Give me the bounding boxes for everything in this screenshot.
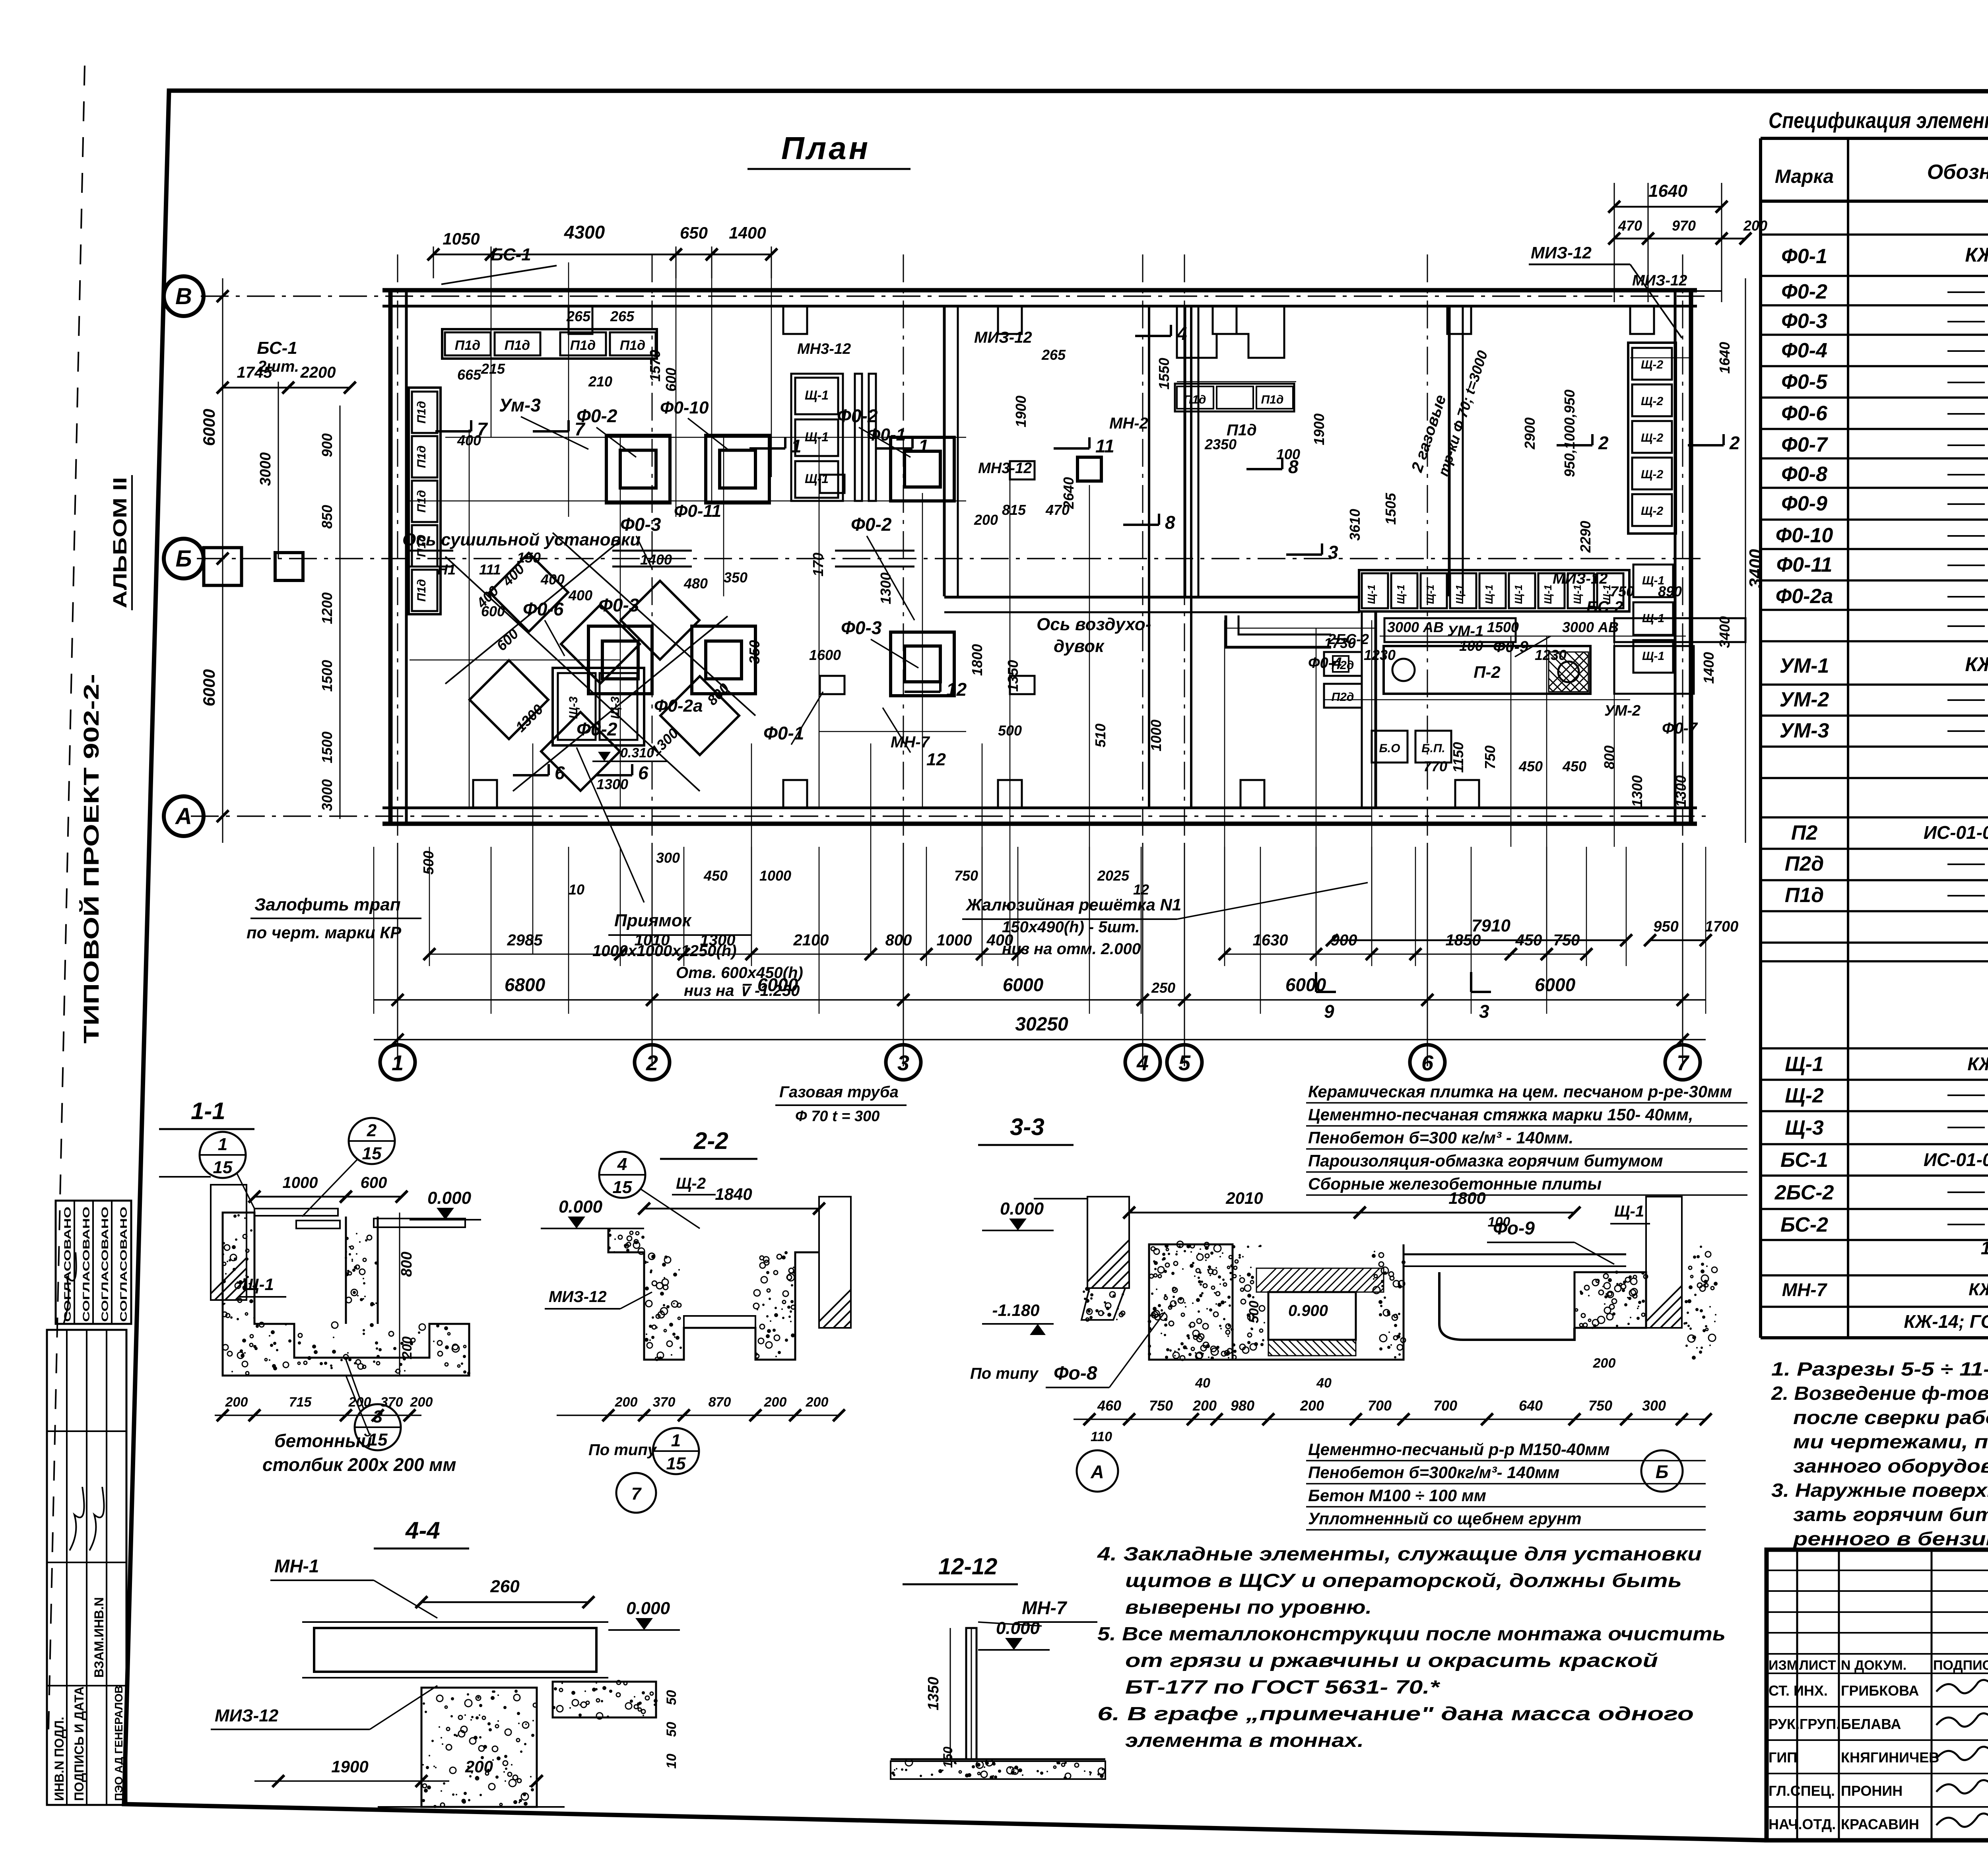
extra projection verticals below plan (429, 847, 430, 966)
svg-text:Ф0-2: Ф0-2 (851, 514, 892, 535)
svg-text:КЖ-25: КЖ-25 (1965, 653, 1988, 675)
svg-text:15: 15 (362, 1144, 382, 1163)
svg-text:6: 6 (555, 763, 565, 783)
interior walls (943, 306, 946, 596)
svg-text:750: 750 (1610, 583, 1634, 600)
svg-text:970: 970 (1672, 217, 1696, 234)
svg-text:П1д: П1д (415, 401, 428, 424)
svg-text:1400: 1400 (1701, 652, 1717, 684)
svg-text:6000: 6000 (1535, 974, 1576, 995)
svg-text:ПОДПИСЬ И ДАТА: ПОДПИСЬ И ДАТА (72, 1686, 86, 1801)
svg-text:Фо-8: Фо-8 (1054, 1363, 1097, 1384)
svg-text:Жалюзийная решётка N1: Жалюзийная решётка N1 (965, 895, 1181, 914)
dimension chain below plan (374, 999, 1706, 1001)
svg-text:2290: 2290 (1577, 521, 1594, 553)
svg-text:1550: 1550 (1156, 358, 1172, 390)
svg-text:30250: 30250 (1015, 1014, 1068, 1035)
svg-text:Б.О: Б.О (1379, 742, 1400, 755)
pit Щ-3 boxes (553, 668, 644, 745)
svg-text:400: 400 (540, 571, 565, 588)
svg-text:СТ. ИНХ.: СТ. ИНХ. (1769, 1682, 1828, 1699)
svg-text:7: 7 (575, 419, 586, 439)
svg-text:480: 480 (683, 575, 708, 592)
svg-text:200: 200 (465, 1757, 493, 1776)
svg-text:300: 300 (1642, 1397, 1666, 1414)
svg-text:Ф0-2а: Ф0-2а (1776, 585, 1833, 608)
svg-text:12-12: 12-12 (938, 1554, 997, 1580)
pilasters on bottom wall (473, 780, 497, 808)
svg-text:170: 170 (810, 553, 826, 576)
svg-text:1400: 1400 (640, 551, 672, 568)
svg-text:РУК.ГРУП.: РУК.ГРУП. (1769, 1716, 1840, 1732)
svg-text:450: 450 (1562, 758, 1586, 774)
svg-text:Спецификация элементов к марки: Спецификация элементов к маркировочным с… (1769, 108, 1988, 133)
svg-text:770: 770 (1423, 758, 1447, 774)
Щ-1 column right (1633, 565, 1673, 597)
svg-text:Ф0-3: Ф0-3 (1781, 310, 1827, 333)
svg-text:370: 370 (381, 1395, 403, 1410)
svg-text:6000: 6000 (1003, 974, 1044, 995)
svg-text:1840: 1840 (715, 1185, 752, 1203)
svg-text:Бетон М100 ÷ 100 мм: Бетон М100 ÷ 100 мм (1308, 1486, 1486, 1505)
svg-text:265: 265 (610, 308, 635, 324)
svg-text:265: 265 (1041, 347, 1066, 363)
svg-text:ИНВ.N ПОДЛ.: ИНВ.N ПОДЛ. (52, 1717, 66, 1801)
svg-text:200: 200 (1743, 217, 1767, 234)
svg-text:Щ-1: Щ-1 (1454, 585, 1466, 604)
svg-text:УМ-1: УМ-1 (1447, 623, 1483, 640)
svg-text:12: 12 (926, 750, 946, 769)
svg-text:7910: 7910 (1472, 916, 1510, 935)
svg-text:500: 500 (998, 722, 1022, 739)
svg-text:640: 640 (1519, 1397, 1543, 1414)
svg-text:ренного в бензине.: ренного в бензине. (1792, 1529, 1988, 1550)
svg-text:2. Возведение ф-тов под оборуд: 2. Возведение ф-тов под оборудование раз… (1771, 1383, 1988, 1404)
bottom right dims 7910 (1332, 939, 1626, 941)
svg-text:700: 700 (1368, 1397, 1392, 1414)
section 1-1 channel body (223, 1213, 469, 1376)
svg-text:Щ-1: Щ-1 (1642, 650, 1664, 663)
svg-text:В: В (175, 283, 192, 309)
svg-text:низ на отм. 2.000: низ на отм. 2.000 (1002, 940, 1141, 958)
svg-text:Н1: Н1 (437, 561, 456, 578)
svg-text:Ф0-2: Ф0-2 (577, 719, 617, 739)
svg-text:занного оборудования.: занного оборудования. (1793, 1456, 1988, 1477)
svg-text:1000х1000х1250(h): 1000х1000х1250(h) (592, 942, 737, 960)
svg-text:СОГЛАСОВАНО: СОГЛАСОВАНО (100, 1207, 111, 1322)
svg-text:950: 950 (1653, 918, 1678, 935)
left dimension chains (222, 278, 223, 843)
svg-text:Марка: Марка (1775, 166, 1834, 187)
svg-text:800: 800 (885, 931, 912, 949)
svg-text:БЕЛАВА: БЕЛАВА (1841, 1716, 1901, 1732)
svg-text:Б: Б (175, 546, 192, 572)
svg-text:4: 4 (1136, 1051, 1149, 1075)
svg-text:15: 15 (666, 1454, 686, 1473)
svg-text:2шт.: 2шт. (257, 358, 299, 375)
svg-text:Отв. 600х450(h): Отв. 600х450(h) (676, 964, 803, 982)
left paper edge dashed line (49, 66, 85, 1729)
svg-text:4300: 4300 (564, 222, 605, 243)
svg-text:Щ-1: Щ-1 (1512, 585, 1524, 604)
svg-text:100: 100 (1276, 446, 1300, 462)
svg-text:5. Все металлоконструкции пос: 5. Все металлоконструкции после монтажа … (1097, 1624, 1726, 1645)
svg-text:Щ-1: Щ-1 (805, 472, 829, 486)
intermediate dims row under plan (429, 954, 1018, 955)
svg-text:40: 40 (1316, 1376, 1332, 1391)
svg-text:6. В графе „примечание" дана: 6. В графе „примечание" дана масса одног… (1097, 1704, 1694, 1725)
svg-text:1: 1 (392, 1051, 404, 1075)
Б.О / Б.П boxes (1372, 731, 1408, 763)
dimensions above plan (433, 254, 491, 256)
svg-text:ВЗАМ.ИНВ.N: ВЗАМ.ИНВ.N (92, 1597, 106, 1678)
svg-text:7: 7 (631, 1484, 642, 1504)
svg-text:ИС-01-04, вып.2: ИС-01-04, вып.2 (1924, 1149, 1988, 1170)
svg-text:Щ-2: Щ-2 (1641, 395, 1664, 408)
svg-text:Щ-2: Щ-2 (676, 1175, 706, 1192)
svg-text:КЖ-16: КЖ-16 (1965, 244, 1988, 266)
svg-text:15: 15 (213, 1158, 233, 1177)
svg-text:1000: 1000 (937, 931, 972, 949)
svg-text:1-1: 1-1 (191, 1098, 225, 1124)
svg-text:дувок: дувок (1054, 636, 1105, 656)
svg-text:3000: 3000 (257, 452, 274, 486)
svg-text:БС-1: БС-1 (257, 338, 297, 358)
svg-text:1150: 1150 (1450, 742, 1466, 772)
svg-text:800: 800 (1601, 745, 1617, 769)
svg-text:Уплотненный со щебнем грунт: Уплотненный со щебнем грунт (1308, 1509, 1582, 1528)
svg-text:Ф0-11: Ф0-11 (1776, 553, 1833, 576)
svg-text:2985: 2985 (507, 931, 543, 949)
svg-text:8: 8 (1165, 512, 1175, 533)
svg-text:Ум-3: Ум-3 (499, 395, 541, 415)
svg-text:200: 200 (348, 1395, 371, 1410)
svg-text:1350: 1350 (1005, 660, 1021, 692)
svg-text:3-3: 3-3 (1010, 1114, 1044, 1140)
П-2 plate long bar (1384, 646, 1590, 694)
svg-text:6800: 6800 (505, 974, 546, 995)
svg-text:2100: 2100 (793, 931, 829, 949)
svg-text:1700: 1700 (1705, 918, 1739, 935)
svg-text:4: 4 (1176, 323, 1187, 344)
svg-text:200: 200 (400, 1337, 415, 1360)
svg-text:Щ-1: Щ-1 (1614, 1203, 1644, 1220)
svg-text:Обозначение: Обозначение (1927, 161, 1988, 184)
svg-text:АЛЬБОМ II: АЛЬБОМ II (110, 477, 131, 608)
projection thin lines vertical (491, 262, 492, 437)
svg-text:1230: 1230 (1364, 647, 1396, 663)
axis circles lettered (164, 276, 204, 316)
svg-text:200: 200 (410, 1395, 433, 1410)
section 2-2 channel (608, 1228, 819, 1360)
svg-text:215: 215 (481, 361, 505, 377)
section 4-4 column (421, 1688, 537, 1807)
svg-text:900: 900 (319, 433, 335, 457)
svg-text:после сверки рабочих чертежей: после сверки рабочих чертежей фундаменто… (1793, 1407, 1988, 1428)
svg-text:Ф0-2: Ф0-2 (1781, 280, 1827, 303)
svg-text:0.000: 0.000 (427, 1188, 472, 1208)
svg-text:Щ-2: Щ-2 (1641, 505, 1664, 518)
svg-text:950,1000,950: 950,1000,950 (1561, 390, 1578, 477)
svg-text:2350: 2350 (1204, 436, 1237, 452)
plan axis lines vertical (397, 254, 398, 1069)
svg-text:200: 200 (1192, 1397, 1217, 1414)
svg-text:Ф0-2а: Ф0-2а (654, 696, 703, 716)
pilasters on top wall (569, 306, 592, 334)
svg-text:КЖ-28: КЖ-28 (1969, 1280, 1988, 1299)
svg-text:1600: 1600 (809, 647, 841, 663)
section 3-3 dims (1129, 1212, 1360, 1214)
svg-text:2: 2 (646, 1051, 658, 1075)
svg-text:щитов в ЩСУ и операторской, до: щитов в ЩСУ и операторской, должны быть (1125, 1570, 1682, 1591)
svg-text:4: 4 (617, 1155, 627, 1174)
svg-text:890: 890 (1658, 583, 1682, 600)
svg-text:Ф0-11: Ф0-11 (674, 501, 721, 521)
svg-text:650: 650 (680, 223, 708, 242)
svg-text:470: 470 (1618, 217, 1642, 234)
svg-text:100: 100 (1459, 638, 1483, 654)
svg-text:200: 200 (1593, 1356, 1616, 1371)
svg-text:815: 815 (1002, 502, 1026, 518)
svg-text:50: 50 (664, 1690, 679, 1705)
svg-text:3: 3 (1328, 542, 1338, 563)
lower-left outside pads Ф0-5 (204, 548, 242, 586)
svg-text:Ф0-2: Ф0-2 (837, 406, 878, 426)
svg-text:План: План (781, 130, 870, 166)
svg-text:П1д: П1д (505, 338, 530, 353)
svg-text:0.000: 0.000 (559, 1197, 603, 1217)
svg-text:3400: 3400 (1746, 549, 1765, 588)
svg-text:3: 3 (1479, 1001, 1489, 1022)
svg-text:1: 1 (218, 1135, 227, 1154)
svg-text:1630: 1630 (1253, 931, 1288, 949)
projection thin lines horizontal (445, 437, 966, 438)
svg-text:450: 450 (703, 867, 728, 884)
svg-text:6000: 6000 (200, 409, 218, 446)
axis circles numbered (380, 1045, 415, 1080)
svg-text:КЖ-28: КЖ-28 (1967, 1054, 1988, 1074)
svg-text:МИЗ-12: МИЗ-12 (549, 1288, 607, 1306)
svg-text:200: 200 (225, 1395, 248, 1410)
svg-text:750: 750 (1588, 1397, 1612, 1414)
svg-text:ПОДПИСЬ: ПОДПИСЬ (1933, 1658, 1988, 1673)
svg-text:КНЯГИНИЧЕВ: КНЯГИНИЧЕВ (1841, 1749, 1939, 1766)
svg-text:3000 АВ: 3000 АВ (1387, 619, 1444, 635)
svg-text:Щ-1: Щ-1 (1571, 585, 1583, 604)
svg-text:750: 750 (954, 867, 978, 884)
svg-text:Ф0-4: Ф0-4 (1308, 655, 1342, 671)
svg-text:БС-1: БС-1 (491, 245, 531, 264)
svg-text:П-2: П-2 (1474, 663, 1501, 681)
left stamp boxes lower (47, 1330, 126, 1805)
svg-text:450: 450 (1518, 758, 1543, 774)
svg-text:МИЗ-12: МИЗ-12 (974, 329, 1032, 346)
svg-text:2: 2 (1729, 433, 1740, 453)
svg-text:Б: Б (1656, 1461, 1669, 1482)
svg-text:Щ-1: Щ-1 (243, 1275, 274, 1294)
section 12-12 post (966, 1628, 977, 1759)
svg-text:750: 750 (1149, 1397, 1173, 1414)
svg-text:выверены по уровню.: выверены по уровню. (1125, 1597, 1372, 1618)
svg-text:1640: 1640 (1716, 342, 1733, 374)
svg-text:400: 400 (457, 432, 481, 448)
svg-text:0.000: 0.000 (626, 1599, 670, 1618)
svg-text:3. Наружные поверхности канало: 3. Наружные поверхности каналов, соприка… (1771, 1480, 1988, 1501)
svg-text:1. Разрезы 5-5 ÷ 11-11 даны на: 1. Разрезы 5-5 ÷ 11-11 даны на листе кж-… (1771, 1359, 1988, 1380)
svg-text:ми чертежами, полученными от з: ми чертежами, полученными от завода-изго… (1793, 1432, 1988, 1453)
svg-text:П2: П2 (1791, 821, 1817, 844)
svg-text:Газовая труба: Газовая труба (779, 1083, 899, 1101)
svg-text:1230: 1230 (1535, 647, 1567, 663)
svg-text:Ф 70 t = 300: Ф 70 t = 300 (795, 1108, 879, 1125)
svg-text:6: 6 (1421, 1051, 1434, 1075)
svg-text:Ф0-3: Ф0-3 (841, 617, 882, 638)
svg-text:1400: 1400 (729, 223, 766, 242)
title block (1767, 1550, 1988, 1840)
Щ-1 horizontal row along axis Б right room (1362, 573, 1388, 608)
svg-text:470: 470 (1045, 502, 1070, 518)
svg-text:500: 500 (1246, 1301, 1262, 1323)
svg-text:100: 100 (1488, 1215, 1510, 1230)
svg-text:200: 200 (974, 512, 998, 528)
svg-text:Керамическая плитка на цем. пе: Керамическая плитка на цем. песчаном р-р… (1308, 1082, 1732, 1101)
svg-text:СОГЛАСОВАНО: СОГЛАСОВАНО (81, 1207, 92, 1322)
svg-text:150: 150 (517, 549, 541, 566)
svg-text:П1д: П1д (455, 338, 480, 353)
svg-text:1900: 1900 (331, 1757, 368, 1776)
svg-text:665: 665 (457, 367, 481, 383)
svg-text:3400: 3400 (1716, 616, 1733, 648)
svg-text:Б.П.: Б.П. (1421, 742, 1445, 755)
svg-text:БС-2: БС-2 (1780, 1213, 1828, 1236)
svg-text:1800: 1800 (1448, 1189, 1485, 1207)
svg-text:2: 2 (367, 1121, 377, 1140)
svg-text:П1д: П1д (1261, 393, 1284, 406)
svg-text:БС-1: БС-1 (1780, 1149, 1828, 1172)
svg-text:1500: 1500 (1487, 619, 1519, 635)
svg-text:Пароизоляция-обмазка горячим б: Пароизоляция-обмазка горячим битумом (1308, 1151, 1663, 1170)
foundation pads row between axes 1-3 upper (606, 435, 670, 503)
svg-text:0.900: 0.900 (1288, 1302, 1328, 1319)
svg-text:300: 300 (656, 850, 680, 866)
svg-text:Ф0-3: Ф0-3 (598, 595, 639, 615)
svg-text:800: 800 (398, 1252, 415, 1277)
svg-text:БТ-177 по ГОСТ 5631- 70.*: БТ-177 по ГОСТ 5631- 70.* (1125, 1677, 1441, 1698)
section marks 9 and 3 below plan (1315, 972, 1317, 992)
svg-text:Цементно-песчаный р-р М150-40м: Цементно-песчаный р-р М150-40мм (1308, 1440, 1610, 1459)
svg-text:5: 5 (1178, 1051, 1191, 1075)
svg-text:40: 40 (1195, 1376, 1210, 1391)
svg-text:Ось воздухо-: Ось воздухо- (1037, 615, 1151, 634)
svg-text:Пенобетон б=300 кг/м³ - 140мм.: Пенобетон б=300 кг/м³ - 140мм. (1308, 1128, 1573, 1147)
svg-text:6000: 6000 (200, 669, 218, 706)
svg-text:П1д: П1д (415, 446, 428, 468)
svg-text:МИЗ-12: МИЗ-12 (1531, 243, 1592, 262)
svg-text:-1.180: -1.180 (992, 1301, 1039, 1319)
svg-text:КЖ-14; ГОСТ3262-75: КЖ-14; ГОСТ3262-75 (1904, 1311, 1988, 1332)
section 4-4 beam (314, 1628, 596, 1672)
svg-text:ИС-01-04, вып.2: ИС-01-04, вып.2 (1924, 822, 1988, 843)
svg-text:УМ-1: УМ-1 (1780, 654, 1829, 677)
svg-text:715: 715 (289, 1395, 312, 1410)
svg-text:3610: 3610 (1347, 509, 1363, 541)
svg-text:265: 265 (566, 308, 591, 324)
svg-text:Ф0-4: Ф0-4 (1781, 339, 1827, 362)
svg-text:200: 200 (1300, 1397, 1324, 1414)
svg-text:1500: 1500 (319, 732, 335, 763)
svg-text:Пенобетон б=300кг/м³- 140мм: Пенобетон б=300кг/м³- 140мм (1308, 1463, 1559, 1482)
Щ-2 stack right wall (1632, 348, 1672, 380)
svg-text:1500: 1500 (319, 660, 335, 692)
svg-text:150: 150 (941, 1746, 955, 1768)
svg-text:Ф0-10: Ф0-10 (1776, 524, 1833, 547)
svg-text:МН-1: МН-1 (274, 1556, 319, 1576)
svg-text:4-4: 4-4 (405, 1517, 440, 1544)
Щ-1 panel stack room 3-4 (791, 374, 843, 501)
P1d row small room axes 4-5 (1175, 384, 1294, 411)
svg-text:2900: 2900 (1522, 417, 1538, 450)
svg-text:СОГЛАСОВАНО: СОГЛАСОВАНО (118, 1207, 129, 1322)
P1d slab column left wall (412, 392, 437, 433)
svg-text:Щ-1: Щ-1 (1424, 585, 1436, 604)
svg-text:9: 9 (1324, 1001, 1334, 1022)
svg-text:Щ-1: Щ-1 (1483, 585, 1495, 604)
svg-text:П1д: П1д (570, 338, 596, 353)
svg-text:1350: 1350 (925, 1677, 942, 1711)
svg-text:Ф0-6: Ф0-6 (1781, 402, 1828, 425)
svg-text:ГРИБКОВА: ГРИБКОВА (1841, 1682, 1919, 1699)
svg-text:15: 15 (613, 1178, 632, 1197)
svg-text:Ф0-7: Ф0-7 (1781, 433, 1828, 456)
svg-text:10: 10 (664, 1754, 679, 1769)
svg-text:0.000: 0.000 (996, 1618, 1040, 1638)
svg-text:150х490(h) - 5шт.: 150х490(h) - 5шт. (1002, 918, 1140, 936)
svg-text:МН-2: МН-2 (1109, 415, 1148, 432)
svg-text:1: 1 (671, 1431, 681, 1450)
svg-text:элемента в тоннах.: элемента в тоннах. (1125, 1730, 1364, 1751)
svg-text:370: 370 (653, 1395, 676, 1410)
diagonal cluster of rotated pads (489, 553, 568, 632)
svg-text:1000: 1000 (283, 1174, 318, 1191)
svg-text:НАЧ.ОТД.: НАЧ.ОТД. (1769, 1816, 1836, 1832)
svg-text:МН3-12: МН3-12 (797, 341, 851, 357)
svg-text:1000: 1000 (759, 867, 791, 884)
svg-text:от грязи и ржавчины и окрасить: от грязи и ржавчины и окрасить краской (1125, 1650, 1658, 1671)
svg-text:210: 210 (588, 373, 612, 390)
svg-text:1640: 1640 (1648, 181, 1687, 201)
svg-text:500: 500 (420, 851, 437, 875)
svg-text:А: А (175, 803, 192, 829)
Ф0-9 rectangles right room (1384, 618, 1516, 642)
svg-text:Щ-2: Щ-2 (1785, 1084, 1824, 1107)
P1d slab row top-left (445, 332, 491, 355)
left stamp boxes upper (56, 1201, 131, 1324)
svg-text:УМ-2: УМ-2 (1604, 702, 1640, 719)
svg-text:Ф0-6: Ф0-6 (523, 599, 564, 619)
svg-text:ГИП: ГИП (1769, 1749, 1797, 1766)
svg-text:1900: 1900 (1311, 413, 1327, 445)
svg-text:510: 510 (1092, 724, 1109, 747)
svg-text:700: 700 (1433, 1397, 1457, 1414)
svg-text:П1д: П1д (620, 338, 645, 353)
svg-text:200: 200 (806, 1395, 829, 1410)
svg-text:УМ-2: УМ-2 (1780, 688, 1829, 711)
svg-text:200: 200 (615, 1395, 638, 1410)
svg-text:350: 350 (724, 569, 747, 586)
svg-text:Щ-1: Щ-1 (1365, 585, 1377, 604)
svg-text:1050: 1050 (443, 229, 480, 248)
svg-text:ПЭО АД ГЕНЕРАЛОВ: ПЭО АД ГЕНЕРАЛОВ (113, 1686, 125, 1801)
